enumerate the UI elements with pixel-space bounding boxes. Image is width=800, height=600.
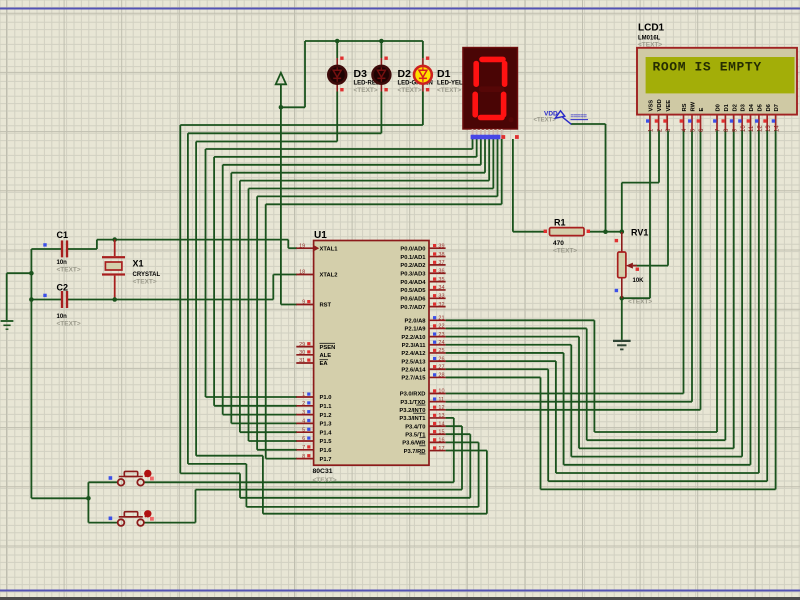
wire D1 riser (422, 41, 424, 58)
svg-text:<TEXT>: <TEXT> (628, 299, 652, 306)
svg-text:U1: U1 (314, 230, 327, 241)
power arrow VCC (280, 84, 282, 107)
wire rail left drop (304, 41, 306, 107)
svg-text:30: 30 (299, 350, 305, 356)
junction C2 left (29, 297, 34, 302)
junction D2 rail (379, 39, 384, 44)
svg-text:RST: RST (320, 303, 332, 309)
svg-text:16: 16 (438, 438, 444, 444)
wire P3.1 to LCD RW (446, 401, 692, 403)
svg-text:12: 12 (438, 405, 444, 411)
svg-text:VEE: VEE (666, 100, 672, 112)
window bottom bar (0, 597, 800, 600)
svg-text:R1: R1 (554, 217, 566, 227)
svg-text:P0.0/AD0: P0.0/AD0 (400, 246, 425, 252)
svg-text:25: 25 (438, 348, 444, 354)
svg-text:D2: D2 (398, 68, 412, 80)
svg-text:13: 13 (438, 413, 444, 419)
ground symbol left (1, 320, 14, 322)
svg-text:P1.0: P1.0 (320, 395, 332, 401)
svg-text:P1.2: P1.2 (320, 413, 332, 419)
svg-text:P3.0/RXD: P3.0/RXD (400, 392, 426, 398)
wire button1 to P3.3 (144, 481, 454, 483)
svg-text:ALE: ALE (320, 353, 332, 359)
push button 2 (118, 519, 125, 526)
wire D2 chain (188, 132, 382, 134)
7-segment pins (472, 129, 474, 139)
svg-text:24: 24 (438, 340, 444, 346)
svg-text:10: 10 (741, 125, 747, 132)
wire LCD VDD (658, 131, 660, 183)
svg-text:10K: 10K (633, 278, 645, 284)
svg-text:X1: X1 (133, 259, 144, 269)
svg-text:P0.6/AD6: P0.6/AD6 (400, 297, 426, 303)
svg-text:D2: D2 (732, 104, 738, 111)
junction arrow node (279, 105, 284, 110)
svg-text:<TEXT>: <TEXT> (57, 267, 81, 274)
svg-text:CRYSTAL: CRYSTAL (133, 272, 161, 278)
power arrow VDD (555, 111, 565, 118)
svg-text:P1.7: P1.7 (320, 457, 332, 463)
svg-text:14: 14 (438, 421, 444, 427)
svg-text:470: 470 (553, 240, 564, 247)
ground symbol RV1 (613, 340, 631, 342)
svg-text:D4: D4 (749, 103, 755, 111)
svg-text:E: E (699, 108, 705, 112)
svg-text:D6: D6 (766, 103, 772, 111)
svg-text:31: 31 (299, 358, 305, 364)
capacitor C1 (61, 240, 63, 257)
svg-text:19: 19 (299, 243, 305, 249)
svg-text:33: 33 (438, 294, 444, 300)
svg-text:P1.1: P1.1 (320, 404, 333, 410)
wire P3.0 to LCD RS (446, 393, 684, 395)
svg-text:C2: C2 (57, 283, 69, 293)
wire D3 riser (336, 41, 338, 58)
wire X1 bottom pin (114, 276, 116, 300)
junction X1 bottom (112, 297, 117, 302)
svg-text:RW: RW (691, 101, 697, 111)
sheet border top (0, 8, 800, 10)
svg-text:P2.5/A13: P2.5/A13 (401, 359, 426, 365)
svg-text:27: 27 (438, 364, 444, 370)
7-segment display body (463, 48, 518, 130)
wire XTAL2 rail (68, 299, 274, 301)
IC U1 80C31 body (314, 241, 429, 466)
svg-text:10n: 10n (57, 314, 68, 320)
LCD LM016L body (637, 48, 797, 115)
LCD screen (646, 57, 795, 93)
svg-text:13: 13 (766, 125, 772, 132)
svg-text:39: 39 (438, 243, 444, 249)
svg-text:ROOM IS EMPTY: ROOM IS EMPTY (653, 60, 762, 75)
svg-text:22: 22 (438, 324, 444, 330)
wire top rail (305, 40, 423, 42)
svg-text:<TEXT>: <TEXT> (57, 321, 81, 328)
wire P3.2 to LCD E (446, 409, 701, 411)
svg-text:26: 26 (438, 356, 444, 362)
svg-text:P2.2/A10: P2.2/A10 (401, 335, 425, 341)
junction VDD node (603, 229, 608, 234)
XTAL1 clock arrow (314, 245, 319, 251)
wire XTAL1 rail (97, 239, 288, 241)
svg-text:28: 28 (438, 373, 444, 379)
svg-text:C1: C1 (57, 230, 69, 240)
svg-text:7: 7 (302, 445, 305, 451)
LED D3 (336, 58, 338, 92)
svg-text:38: 38 (438, 252, 444, 258)
wire P2 bus to LCD data (446, 319, 595, 321)
svg-text:XTAL2: XTAL2 (320, 273, 338, 279)
svg-text:2: 2 (302, 401, 305, 407)
wire 7seg bus to P1 (472, 139, 474, 149)
svg-text:P1.6: P1.6 (320, 448, 333, 454)
junction D3 rail (335, 39, 340, 44)
svg-text:23: 23 (438, 332, 444, 338)
svg-text:18: 18 (299, 270, 305, 276)
wire 7seg common to R1 (512, 139, 514, 232)
svg-text:80C31: 80C31 (313, 468, 333, 475)
junction RV1 top node (620, 229, 625, 234)
junction gnd tap (29, 271, 34, 276)
push button 1 (118, 479, 125, 486)
crystal X1 (102, 256, 125, 258)
resistor R1 (550, 228, 585, 236)
svg-text:P0.4/AD4: P0.4/AD4 (400, 280, 426, 286)
svg-text:17: 17 (438, 446, 444, 452)
svg-text:4: 4 (302, 419, 305, 425)
svg-text:D1: D1 (437, 68, 451, 80)
svg-text:1: 1 (302, 392, 305, 398)
wire button2 to P3.4 (144, 522, 196, 524)
wire D2 riser (380, 41, 382, 58)
junction buttons node (86, 496, 91, 501)
svg-text:P1.4: P1.4 (320, 430, 333, 436)
svg-text:P2.6/A14: P2.6/A14 (401, 367, 426, 373)
wire X1 top pin (114, 240, 116, 257)
svg-text:34: 34 (438, 285, 444, 291)
svg-text:VDD: VDD (657, 99, 663, 111)
wire D1 chain (180, 124, 423, 126)
svg-text:<TEXT>: <TEXT> (133, 278, 157, 285)
7-segment segments (482, 57, 503, 63)
wire to power arrow (281, 106, 305, 108)
svg-text:<TEXT>: <TEXT> (313, 477, 337, 484)
sheet border bottom (0, 590, 800, 592)
wire D3 chain (196, 141, 337, 143)
svg-text:5: 5 (302, 427, 305, 433)
svg-text:RS: RS (682, 103, 688, 111)
svg-text:P1.5: P1.5 (320, 439, 333, 445)
svg-text:32: 32 (438, 302, 444, 308)
svg-text:6: 6 (302, 436, 305, 442)
svg-text:11: 11 (749, 125, 755, 132)
wire left gnd rail (30, 249, 32, 498)
svg-text:21: 21 (438, 316, 444, 322)
svg-text:<TEXT>: <TEXT> (553, 248, 577, 255)
wire RV1 bottom (622, 297, 650, 299)
LED D1 (422, 58, 424, 92)
svg-text:RV1: RV1 (631, 228, 648, 238)
svg-text:8: 8 (302, 454, 305, 460)
svg-text:<TEXT>: <TEXT> (398, 87, 422, 94)
svg-text:P1.3: P1.3 (320, 422, 333, 428)
svg-text:P2.3/A11: P2.3/A11 (402, 343, 427, 349)
svg-text:14: 14 (774, 125, 780, 132)
svg-text:D3: D3 (741, 103, 747, 111)
svg-text:D3: D3 (354, 68, 368, 80)
capacitor C2 (61, 291, 63, 308)
svg-text:XTAL1: XTAL1 (320, 246, 339, 252)
svg-text:VSS: VSS (649, 100, 655, 112)
svg-text:P0.7/AD7: P0.7/AD7 (400, 305, 425, 311)
svg-text:37: 37 (438, 260, 444, 266)
wire to ground (7, 272, 32, 274)
svg-text:P2.4/A12: P2.4/A12 (401, 351, 425, 357)
junction X1 top (112, 237, 117, 242)
U1 left pins (296, 247, 313, 249)
svg-text:D5: D5 (758, 103, 764, 111)
wire C2 left (31, 299, 61, 301)
svg-text:11: 11 (438, 397, 444, 403)
svg-text:PSEN: PSEN (320, 345, 336, 351)
svg-text:D0: D0 (716, 104, 722, 111)
svg-text:<TEXT>: <TEXT> (437, 87, 461, 94)
svg-text:<TEXT>: <TEXT> (534, 118, 557, 124)
wire LCD VEE wiper (667, 131, 669, 266)
svg-text:3: 3 (302, 410, 305, 416)
wire C1 left (31, 248, 61, 250)
svg-text:D1: D1 (724, 103, 730, 111)
potentiometer RV1 (621, 232, 623, 252)
svg-text:P0.2/AD2: P0.2/AD2 (400, 263, 425, 269)
svg-text:12: 12 (758, 125, 764, 132)
svg-text:LCD1: LCD1 (638, 23, 665, 34)
svg-text:P2.7/A15: P2.7/A15 (401, 376, 426, 382)
LCD pins (649, 115, 651, 131)
svg-text:P3.4/T0: P3.4/T0 (405, 424, 425, 430)
LED D2 (380, 58, 382, 92)
svg-text:10n: 10n (57, 260, 68, 266)
svg-text:<TEXT>: <TEXT> (354, 87, 378, 94)
svg-text:36: 36 (438, 268, 444, 274)
wire buttons rail (31, 497, 88, 499)
junction RV1 bottom (620, 296, 625, 301)
svg-text:35: 35 (438, 277, 444, 283)
wire LCD VSS (649, 131, 651, 299)
svg-text:P0.3/AD3: P0.3/AD3 (400, 271, 426, 277)
svg-text:D7: D7 (774, 104, 780, 111)
svg-text:15: 15 (438, 429, 444, 435)
svg-text:10: 10 (438, 389, 444, 395)
svg-text:P2.0/A8: P2.0/A8 (405, 319, 427, 325)
svg-text:29: 29 (299, 342, 305, 348)
svg-text:P3.3/INT1: P3.3/INT1 (399, 416, 426, 422)
wire VDD feed (571, 123, 606, 125)
svg-text:9: 9 (302, 300, 305, 306)
svg-text:P2.1/A9: P2.1/A9 (405, 327, 427, 333)
U1 right pins (429, 247, 446, 249)
wire R1 right rail (588, 231, 622, 233)
svg-text:P0.1/AD1: P0.1/AD1 (400, 255, 426, 261)
svg-text:P0.5/AD5: P0.5/AD5 (400, 288, 426, 294)
svg-text:EA: EA (320, 361, 329, 367)
wire RST rail (280, 107, 282, 304)
